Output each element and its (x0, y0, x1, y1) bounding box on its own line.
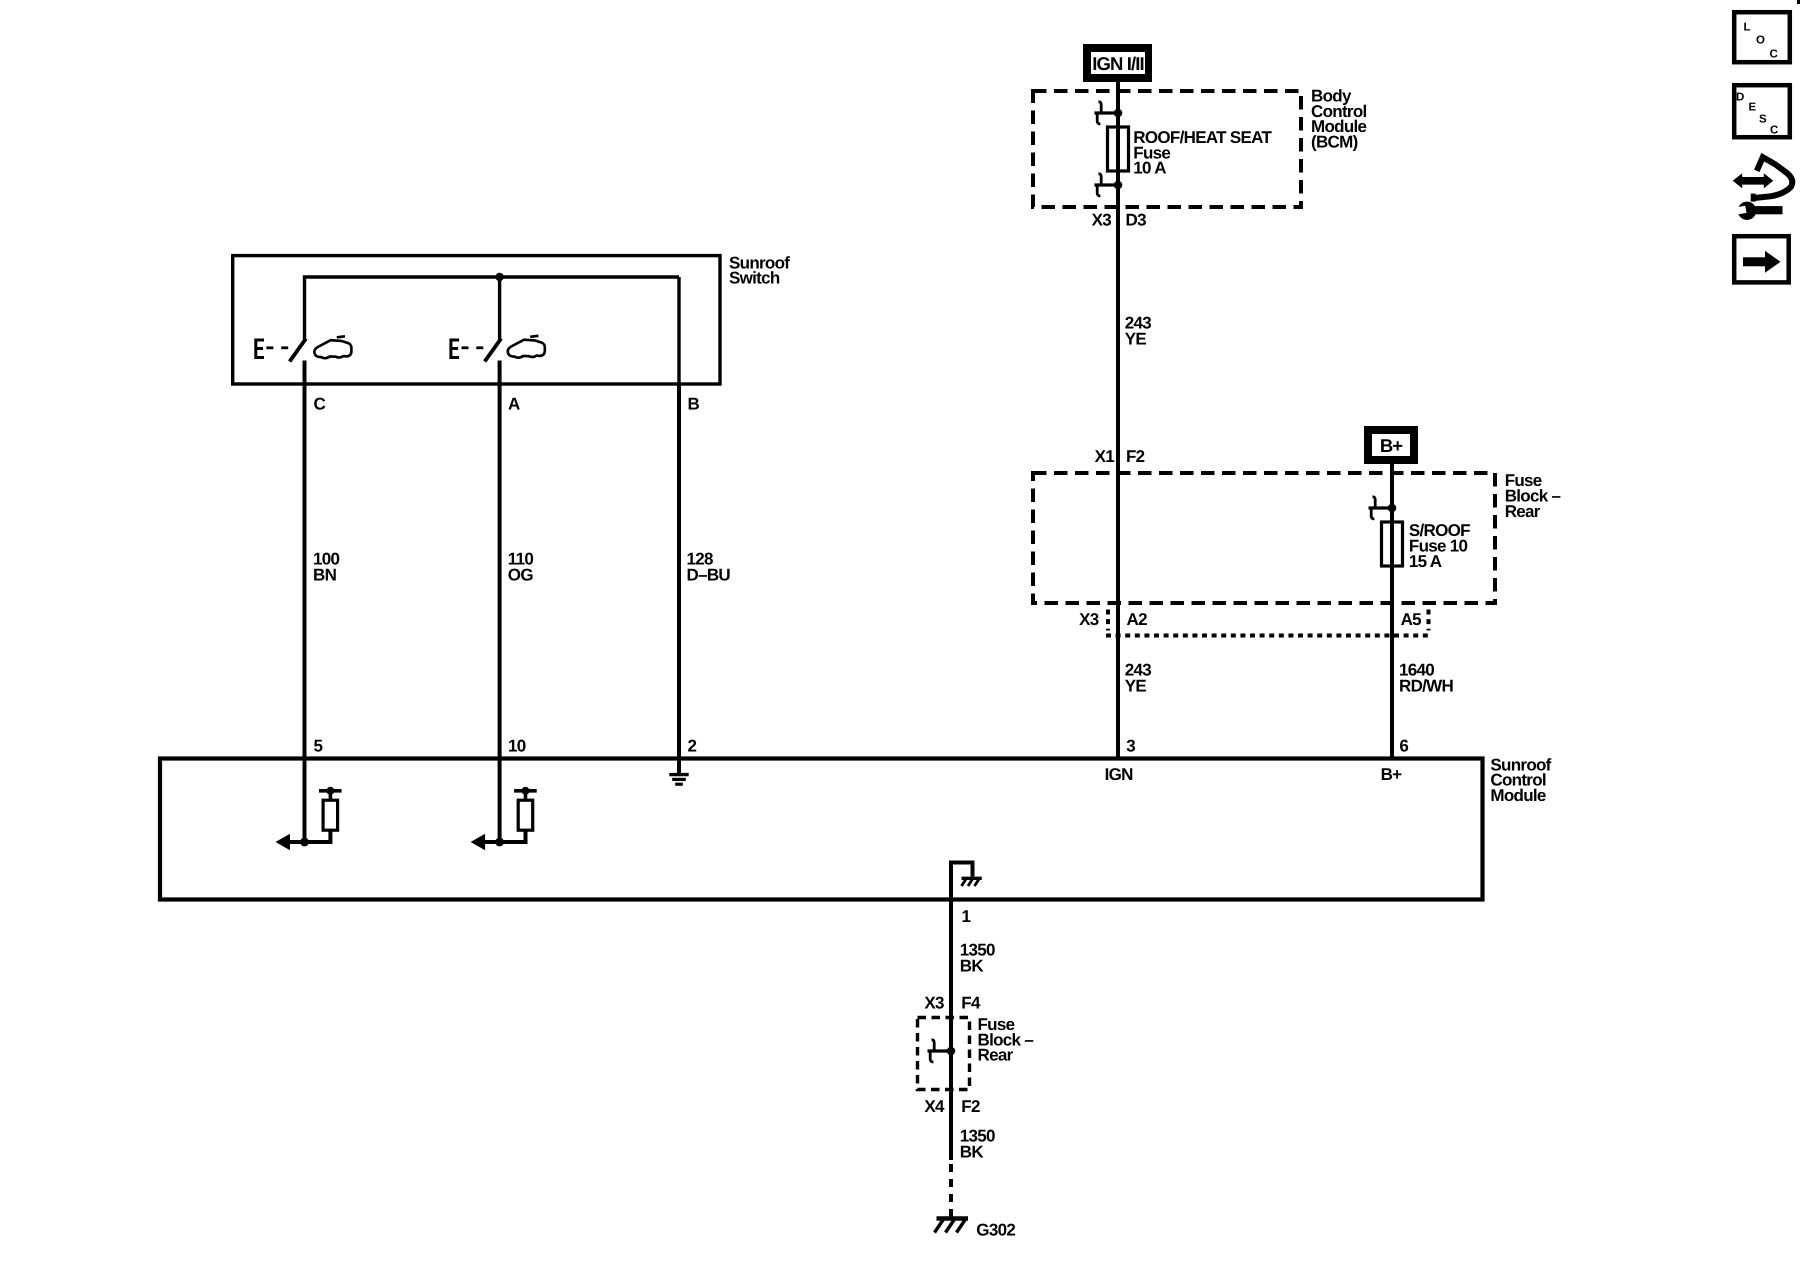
dashed wire to G302 (949, 1164, 953, 1218)
svg-text:3: 3 (1126, 737, 1135, 756)
svg-text:X3: X3 (1092, 211, 1112, 230)
svg-text:2: 2 (688, 737, 697, 756)
svg-text:F4: F4 (961, 994, 981, 1013)
driver circuit at pin 10 (471, 759, 537, 851)
svg-text:O: O (1756, 35, 1765, 47)
connector label X4 F2 (924, 1097, 980, 1116)
internal chassis ground symbol (962, 878, 982, 886)
wire B to pin 2 (677, 384, 681, 759)
connector terminal above fuse F1 (1095, 102, 1123, 124)
fuse ROOF/HEAT SEAT 10 A (1108, 127, 1129, 171)
ground G302 symbol (935, 1219, 969, 1233)
connector label X3 D3 (1092, 211, 1146, 230)
svg-text:YE: YE (1125, 677, 1147, 696)
connector terminal below fuse F1 (1095, 174, 1123, 196)
svg-text:C: C (1770, 125, 1778, 137)
wire label 1640 RD/WH (1399, 660, 1454, 695)
svg-text:BK: BK (960, 1143, 985, 1162)
internal ground lead at pin 1 (951, 863, 973, 898)
Sunroof Control Module box (160, 759, 1483, 900)
svg-text:G302: G302 (976, 1221, 1015, 1240)
pin names IGN and B+ (1105, 765, 1403, 784)
svg-text:5: 5 (314, 737, 323, 756)
wire label 100 BN (313, 550, 340, 585)
car icon close (508, 336, 545, 358)
svg-text:15 A: 15 A (1409, 552, 1442, 571)
wire label 243 YE lower (1125, 660, 1152, 695)
svg-text:X4: X4 (924, 1097, 945, 1116)
wire rail drop to B pin (677, 277, 680, 384)
svg-text:E: E (1749, 102, 1757, 114)
corner mark (1797, 0, 1800, 4)
wire label 110 OG (508, 550, 534, 585)
wire A to pin 10 (498, 361, 502, 759)
svg-text:RD/WH: RD/WH (1399, 677, 1454, 696)
svg-text:C: C (314, 395, 326, 414)
svg-text:B: B (688, 395, 700, 414)
svg-text:B+: B+ (1380, 435, 1403, 456)
svg-text:IGN: IGN (1105, 765, 1134, 784)
svg-text:10 A: 10 A (1133, 159, 1166, 178)
svg-text:X1: X1 (1095, 447, 1115, 466)
Fuse Block Rear dashed box (1033, 473, 1495, 603)
svg-text:Rear: Rear (1505, 502, 1541, 521)
connector X3 bracket row (1106, 610, 1431, 636)
power label B+ (1364, 426, 1418, 464)
fuse S/ROOF 15 A (1382, 522, 1403, 566)
fuse block rear name (978, 1015, 1034, 1065)
svg-text:Module: Module (1490, 786, 1546, 805)
wire rail inside switch (305, 277, 680, 340)
connector label X1 F2 (1095, 447, 1145, 466)
connector terminal above fuse F2 (1369, 497, 1397, 519)
svg-text:Switch: Switch (729, 269, 780, 288)
svg-text:D: D (1736, 92, 1744, 104)
svg-text:F2: F2 (961, 1097, 980, 1116)
Sunroof Switch box (233, 256, 720, 384)
right-arrow icon box (1734, 236, 1789, 282)
svg-text:Rear: Rear (978, 1046, 1014, 1065)
svg-text:C: C (1770, 49, 1778, 61)
switch S2 blade (485, 339, 501, 362)
Fuse Block Rear small dashed box (918, 1018, 970, 1090)
wire C to pin 5 (303, 361, 307, 759)
switch S1 linkage dashes (266, 346, 288, 349)
connector terminal in fuse block (928, 1040, 956, 1062)
module name (1490, 755, 1551, 805)
wire B+ to module pin 6 (1390, 464, 1394, 759)
svg-text:IGN I/II: IGN I/II (1092, 53, 1143, 74)
svg-text:6: 6 (1399, 737, 1408, 756)
connector label X3 F4 (924, 994, 981, 1013)
svg-text:A: A (508, 395, 520, 414)
wire 1350 BK from pin 1 (949, 900, 953, 1161)
wire label 1350 BK lower (960, 1127, 995, 1162)
wire label 243 YE (1125, 314, 1152, 349)
svg-text:A5: A5 (1401, 610, 1422, 629)
svg-text:1: 1 (962, 907, 971, 926)
svg-text:D3: D3 (1126, 211, 1147, 230)
fuse block name (1505, 471, 1561, 521)
svg-text:D–BU: D–BU (687, 566, 731, 585)
svg-text:B+: B+ (1381, 765, 1403, 784)
svg-text:F2: F2 (1126, 447, 1145, 466)
wire label 128 D-BU (687, 550, 731, 585)
switch S2 linkage dashes (462, 346, 484, 349)
wire label 1350 BK (960, 941, 995, 976)
svg-text:X3: X3 (924, 994, 944, 1013)
switch S1 actuator E (255, 339, 265, 360)
svg-text:10: 10 (508, 737, 526, 756)
junction node on rail (495, 273, 503, 281)
BCM name (1311, 87, 1367, 152)
svg-text:S: S (1759, 114, 1767, 126)
double-arrow with wrench icon (1731, 157, 1792, 220)
svg-text:BN: BN (313, 566, 337, 585)
power label IGN I/II (1083, 44, 1152, 82)
Body Control Module dashed box (1033, 91, 1301, 207)
ground symbol at pin 2 (669, 759, 688, 785)
switch name (729, 253, 790, 287)
pin letters C A B (314, 395, 700, 414)
DESC icon box (1734, 85, 1790, 137)
wire rail drop to A switch (498, 277, 501, 340)
pin numbers above module (314, 737, 1409, 756)
LOC icon box (1734, 12, 1790, 62)
driver circuit at pin 5 (276, 759, 342, 851)
svg-text:X3: X3 (1079, 610, 1099, 629)
car icon open (314, 336, 351, 358)
svg-text:A2: A2 (1127, 610, 1148, 629)
svg-text:L: L (1744, 22, 1751, 34)
svg-text:BK: BK (960, 957, 985, 976)
switch S1 blade (290, 339, 306, 362)
wire 243 YE from IGN to module pin 3 (1116, 82, 1120, 759)
svg-text:OG: OG (508, 566, 534, 585)
connector labels X3 A2 A5 (1079, 610, 1421, 629)
svg-text:YE: YE (1125, 329, 1147, 348)
svg-text:(BCM): (BCM) (1311, 132, 1358, 151)
switch S2 actuator E (450, 339, 460, 360)
